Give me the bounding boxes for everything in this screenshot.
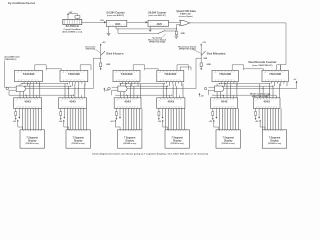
wire rail drop to switch SW1 [117, 29, 119, 34]
svg-text:4543: 4543 [24, 101, 31, 104]
wire decoder input drops x253.3 [259, 84, 261, 98]
wire phase pin U15 [258, 108, 260, 117]
svg-text:(one 74HC390 IC): (one 74HC390 IC) [253, 64, 274, 67]
svg-text:(PN577SCT-ND): (PN577SCT-ND) [86, 48, 96, 50]
wire and-gate inputs section 3 [208, 86, 214, 88]
wire U1 pin to ground [108, 27, 110, 34]
wire segment lines U10 to DS1 [22, 108, 24, 129]
and-gate reset section 3 [215, 86, 224, 92]
wire segment lines U11 to DS2 [67, 108, 69, 129]
wire and-gate inputs section 2 [112, 86, 118, 88]
svg-text:4543: 4543 [69, 101, 76, 104]
wire feedback loop over U4 [34, 65, 36, 71]
svg-text:74HC390: 74HC390 [164, 73, 177, 76]
wire far right vertical +5V seconds [296, 81, 298, 89]
resistor ladder U14 blanking [212, 108, 214, 111]
wire SW1 to pullup node [165, 30, 177, 32]
svg-text:LD: LD [116, 99, 118, 101]
resistor ladder U13 blanking [158, 108, 160, 111]
and-gate reset section 2 [118, 86, 127, 92]
svg-text:(5161AS or sim): (5161AS or sim) [123, 142, 136, 145]
svg-text:74HC390: 74HC390 [269, 73, 282, 76]
wire set-switch feed vertical section 1 [92, 58, 94, 88]
wire decoder input drops x58.5 [64, 84, 66, 98]
wire rail U1 output to OR gate input [116, 28, 176, 30]
svg-text:(ECS-327SMO or sim): (ECS-327SMO or sim) [63, 31, 83, 33]
svg-text:LD: LD [16, 99, 18, 101]
switch Set Minutes momentary blade [201, 51, 205, 55]
ground U2 [149, 29, 152, 31]
svg-text:(use one of 4 gates): (use one of 4 gates) [179, 15, 193, 18]
wire U2 pin to ground [149, 27, 151, 30]
svg-text:LD: LD [61, 99, 63, 101]
junction bus dots section 2 [120, 83, 121, 84]
wire decoder input drops x114.2 [120, 84, 122, 98]
svg-text:GND: GND [181, 33, 186, 35]
counter U8 74HC390 [212, 70, 238, 81]
wire and-gate output row section 1 [26, 88, 94, 90]
svg-text:(PN577SCT-ND): (PN577SCT-ND) [149, 42, 166, 44]
wire segment lines U15 to DS6 [261, 108, 263, 129]
counter U5 74HC390 [60, 70, 88, 81]
svg-text:(74HC08 IC): (74HC08 IC) [4, 58, 16, 61]
svg-text:(5161AS or sim): (5161AS or sim) [268, 142, 281, 145]
ground Set Minutes [200, 68, 202, 70]
resistor ladder U15 blanking [255, 108, 257, 111]
wire bus row 2 section 2 [123, 85, 168, 87]
wire Set Minutes common to counter feed [196, 57, 201, 59]
resistor ladder U11 blanking [60, 108, 62, 111]
ground R2 [174, 35, 178, 37]
wire feedback loop over U5 [79, 65, 81, 71]
resistor ladder U12 blanking [115, 108, 117, 111]
svg-text:32,768 Hz: 32,768 Hz [66, 25, 80, 28]
oscillator X1 32768 Hz crystal oscillator [63, 19, 82, 24]
svg-text:GND: GND [207, 64, 212, 66]
wire carry to next decade [244, 68, 264, 70]
wire counter output stubs x156.8 [165, 82, 167, 84]
wire segment lines U13 to DS4 [165, 108, 167, 129]
decoder U10 4543 BCD to 7-segment [14, 98, 42, 109]
svg-text:(5161AS or sim): (5161AS or sim) [26, 142, 39, 145]
wire phase pin U10 [18, 108, 20, 117]
wire Set Hours common to counter feed [93, 57, 100, 59]
counter U6 74HC390 [113, 70, 140, 81]
wire decoder input drops x210.6 [216, 84, 218, 98]
counter U4 74HC390 [15, 70, 43, 81]
display DS2 7 segment [66, 130, 90, 148]
wire segment lines U12 to DS3 [122, 108, 124, 129]
power +5V hours decoders [103, 88, 105, 90]
decoder U13 4543 BCD to 7-segment [157, 98, 185, 109]
wire and-gate inputs section 1 [3, 61, 5, 87]
wire feedback loop over U8 [231, 65, 233, 71]
or-gate U3 74HC32 [180, 20, 190, 25]
svg-text:/16,384 Counter: /16,384 Counter [148, 11, 167, 14]
svg-text:GND: GND [106, 64, 111, 66]
junction circle reset input section 3 [204, 87, 207, 90]
svg-text:/16,384 Counter: /16,384 Counter [106, 11, 125, 14]
display DS6 7 segment [262, 130, 286, 148]
svg-text:(uses one 4020 IC): (uses one 4020 IC) [149, 14, 166, 17]
svg-text:(5161AS or sim): (5161AS or sim) [222, 142, 235, 145]
wire counter output stubs x14.6 [23, 82, 25, 84]
wire phase pin U11 [63, 108, 65, 117]
svg-text:by mattbusche.net: by mattbusche.net [8, 1, 35, 5]
wire OR gate output 1Hz to seconds section [190, 22, 286, 24]
wire bus row 2 section 3 [222, 85, 274, 87]
wire counter output stubs x212.0 [221, 82, 223, 84]
wire SW1 left contact [118, 32, 158, 34]
wire bus row latch disable section 3 [212, 94, 276, 96]
wire feedback loop 2 over U7 [179, 67, 181, 70]
wire pullup node to OR gate input 2 [175, 25, 177, 32]
decoder U15 4543 BCD to 7-segment [253, 98, 280, 109]
svg-text:Quad OR Gate: Quad OR Gate [176, 10, 196, 13]
wire phase pin U14 [215, 108, 217, 117]
wire and-gate output row section 3 [224, 88, 296, 90]
wire bus row BCD section 3 [218, 83, 270, 85]
display DS5 7 segment [216, 130, 240, 148]
switch SW1 momentary blade [158, 31, 164, 34]
wire decoder input drops x156.7 [162, 84, 164, 98]
resistor ladder U10 blanking [15, 108, 17, 111]
svg-text:74HC390: 74HC390 [219, 73, 232, 76]
wire U1 Q14 output down [115, 27, 117, 29]
svg-text:Dual Decade Counter: Dual Decade Counter [249, 61, 277, 64]
and-gate reset section 1 [16, 86, 25, 92]
counter U7 74HC390 [157, 70, 184, 81]
wire bus row BCD section 2 [119, 83, 164, 85]
wire oscillator output to U1 CLK [82, 21, 107, 23]
svg-text:74HC32: 74HC32 [180, 13, 192, 16]
wire feedback loop over U7 [176, 65, 178, 71]
svg-text:Quad AND Gate: Quad AND Gate [4, 55, 20, 58]
power +5V minutes decoders [199, 93, 201, 95]
decoder U14 4543 BCD to 7-segment [211, 98, 238, 109]
wire carry to next decade [145, 68, 159, 70]
wire feedback loop over U6 [132, 65, 134, 71]
display DS1 7 segment [20, 130, 44, 148]
junction bus dots section 3 [219, 83, 220, 84]
switch Set Hours momentary blade [101, 51, 105, 55]
junction U1 rail and pullup [176, 28, 177, 29]
svg-text:LD: LD [255, 99, 257, 101]
counter U2 4020 [148, 20, 168, 26]
svg-text:4543: 4543 [263, 101, 270, 104]
wire decoder input drops x13.5 [19, 84, 21, 98]
svg-text:4020: 4020 [157, 23, 163, 26]
svg-text:+5V: +5V [294, 79, 297, 81]
ground Set Hours [100, 68, 102, 70]
svg-text:Set Hours: Set Hours [106, 52, 124, 56]
svg-text:4543: 4543 [221, 101, 228, 104]
wire feedback loop over U9 [276, 65, 278, 71]
resistor R2 pulldown [175, 31, 177, 35]
svg-text:Clock diagram (resistors not s: Clock diagram (resistors not shown going… [92, 153, 208, 156]
wire U2 output to OR gate input [168, 21, 180, 23]
wire counter output stubs x262.0 [271, 82, 273, 84]
leader line Set Minutes label [192, 49, 201, 53]
junction circle reset input section 1 [6, 87, 8, 90]
resistor pulldown Set Minutes [200, 63, 202, 67]
wire carry to next decade [46, 68, 61, 70]
resistor R1 oscillator [76, 14, 78, 16]
svg-text:LD: LD [213, 99, 215, 101]
wire bus row 2 section 1 [24, 85, 71, 87]
svg-text:74HC390: 74HC390 [23, 73, 36, 76]
decoder U12 4543 BCD to 7-segment [114, 98, 141, 109]
wire U1 output to U2 CLK [127, 21, 148, 23]
svg-text:(PN577SCT-ND): (PN577SCT-ND) [179, 48, 196, 50]
svg-text:4020: 4020 [115, 23, 121, 26]
wire phase pin U12 [119, 108, 121, 117]
display DS3 7 segment [118, 130, 142, 148]
wire bus row BCD section 1 [21, 83, 68, 85]
ground U1 [107, 33, 111, 35]
wire counter output stubs x113.0 [122, 82, 124, 84]
svg-text:74HC390: 74HC390 [121, 73, 134, 76]
svg-text:4543: 4543 [124, 101, 131, 104]
counter U1 4020 [106, 20, 126, 26]
display DS4 7 segment [165, 130, 189, 148]
counter U9 74HC390 [262, 70, 288, 81]
leader line SW1 label [162, 34, 166, 37]
resistor pulldown Set Hours [100, 63, 102, 67]
svg-text:LD: LD [159, 99, 161, 101]
svg-text:(5161AS or sim): (5161AS or sim) [72, 142, 85, 145]
wire set-switch feed vertical section 2 [195, 58, 197, 88]
leader line Set Hours label [95, 49, 101, 53]
decoder U11 4543 BCD to 7-segment [59, 98, 87, 109]
svg-text:(uses one 4020 IC): (uses one 4020 IC) [107, 14, 124, 17]
svg-text:74HC390: 74HC390 [68, 73, 81, 76]
junction circle reset input section 2 [108, 87, 111, 90]
junction bus dots section 1 [22, 83, 23, 84]
wire counter output stubs x60.0 [69, 82, 71, 84]
wire bus row latch disable section 1 [9, 94, 74, 96]
svg-text:4543: 4543 [168, 101, 175, 104]
wire bus row latch disable section 2 [115, 94, 171, 96]
wire segment lines U14 to DS5 [219, 108, 221, 129]
svg-text:Set Minutes: Set Minutes [207, 52, 227, 56]
svg-text:(5161AS or sim): (5161AS or sim) [171, 142, 184, 145]
wire phase pin U13 [162, 108, 164, 117]
wire and-gate output row section 2 [128, 88, 197, 90]
